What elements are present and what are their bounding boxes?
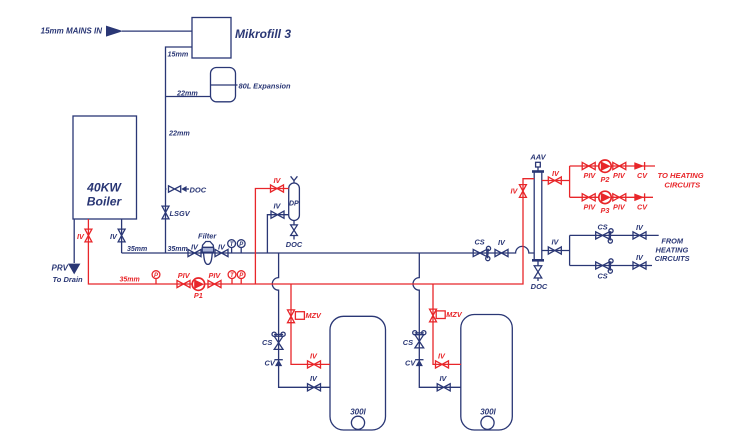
svg-text:IV: IV [191, 242, 199, 251]
svg-text:PIV: PIV [584, 202, 597, 211]
svg-text:22mm: 22mm [176, 88, 198, 97]
svg-text:IV: IV [310, 351, 318, 360]
svg-text:CS: CS [475, 238, 485, 247]
svg-text:To Drain: To Drain [53, 275, 84, 284]
svg-text:300l: 300l [350, 407, 366, 416]
svg-text:IV: IV [310, 374, 318, 383]
svg-text:40KW: 40KW [86, 181, 122, 195]
svg-text:PRV: PRV [52, 263, 69, 272]
svg-text:CV: CV [637, 202, 648, 211]
svg-text:Mikrofill 3: Mikrofill 3 [235, 27, 291, 41]
svg-text:IV: IV [440, 374, 448, 383]
svg-text:CV: CV [405, 358, 416, 367]
svg-text:IV: IV [218, 242, 226, 251]
svg-text:35mm: 35mm [127, 246, 147, 253]
svg-text:CV: CV [265, 358, 276, 367]
svg-text:IV: IV [274, 202, 282, 211]
svg-text:DOC: DOC [531, 282, 548, 291]
svg-text:IV: IV [110, 232, 118, 241]
svg-text:IV: IV [636, 223, 644, 232]
svg-text:15mm: 15mm [168, 50, 189, 59]
svg-text:35mm: 35mm [120, 277, 140, 284]
svg-text:TO HEATING: TO HEATING [658, 171, 704, 180]
svg-text:CS: CS [598, 223, 608, 232]
svg-text:P2: P2 [601, 175, 610, 184]
svg-text:DOC: DOC [190, 186, 207, 195]
svg-text:DP: DP [289, 201, 299, 208]
svg-text:PIV: PIV [178, 271, 191, 280]
svg-text:P1: P1 [194, 291, 203, 300]
svg-text:IV: IV [498, 238, 506, 247]
svg-text:Boiler: Boiler [87, 195, 123, 209]
svg-text:IV: IV [636, 253, 644, 262]
svg-text:PIV: PIV [209, 271, 222, 280]
svg-text:CS: CS [262, 338, 272, 347]
svg-text:CV: CV [637, 171, 648, 180]
svg-text:IV: IV [438, 351, 446, 360]
svg-text:PIV: PIV [613, 202, 626, 211]
svg-text:CS: CS [403, 338, 413, 347]
svg-text:22mm: 22mm [168, 129, 190, 138]
svg-text:MZV: MZV [306, 311, 323, 320]
svg-text:CIRCUITS: CIRCUITS [664, 180, 700, 189]
svg-text:CIRCUITS: CIRCUITS [655, 254, 690, 263]
svg-text:IV: IV [511, 187, 519, 196]
svg-text:IV: IV [77, 232, 85, 241]
svg-text:300l: 300l [480, 407, 496, 416]
svg-text:DOC: DOC [286, 240, 303, 249]
svg-text:AAV: AAV [529, 153, 546, 162]
svg-text:Filter: Filter [198, 232, 217, 241]
svg-text:CS: CS [598, 271, 608, 280]
svg-text:LSGV: LSGV [170, 209, 191, 218]
svg-text:MZV: MZV [446, 310, 463, 319]
svg-text:PIV: PIV [584, 171, 597, 180]
svg-text:35mm: 35mm [168, 246, 188, 253]
svg-text:IV: IV [552, 169, 560, 178]
svg-text:IV: IV [552, 238, 560, 247]
svg-text:FROM: FROM [661, 237, 684, 246]
svg-text:IV: IV [274, 176, 282, 185]
svg-text:PIV: PIV [613, 171, 626, 180]
svg-text:15mm MAINS IN: 15mm MAINS IN [41, 27, 103, 36]
svg-text:P3: P3 [601, 206, 610, 215]
svg-text:80L Expansion: 80L Expansion [239, 81, 292, 90]
